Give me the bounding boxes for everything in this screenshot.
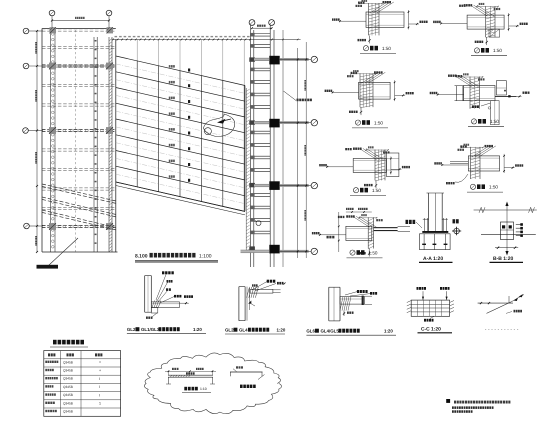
elevation bottom edge [116, 182, 245, 211]
detail 4 lower hatch stub [489, 29, 500, 37]
detail diagonal end labels [383, 1, 385, 3]
secondary beam line y47.5 [42, 45, 116, 47]
detail stiffener diagonals [370, 2, 387, 13]
detail column hatched band [368, 3, 370, 35]
GL6 leaders [345, 292, 358, 296]
detail beam rectangle [346, 226, 372, 240]
detail title circle [363, 46, 368, 51]
A-A column shaft [427, 193, 429, 231]
axis bubble 1 strip top [249, 20, 255, 26]
diagonal brace 2 dashed [42, 197, 116, 215]
detail bottom stub [368, 249, 370, 257]
detail 2 right thick bar [374, 227, 398, 228]
detail title text [478, 119, 482, 124]
svg-text:GL2: GL2 [225, 328, 234, 333]
table vertical rules [59, 351, 61, 417]
detail left dimension [333, 91, 359, 93]
callout inner circle [204, 128, 211, 135]
detail column hatched band [374, 150, 376, 181]
svg-text:1: 1 [99, 402, 101, 406]
strip right edge line [282, 30, 284, 267]
grid verticals [136, 61, 138, 187]
detail title underline [468, 126, 504, 128]
detail title text [357, 250, 361, 255]
notes black square [446, 399, 450, 403]
GL2-GL1/GL3 labels [162, 271, 164, 274]
detail top dim line [461, 76, 483, 78]
notes line 3 [452, 410, 454, 413]
GL6 lower bits [343, 311, 345, 316]
B-B lower line [481, 234, 536, 236]
strip chord left lines [250, 25, 252, 267]
svg-text:1:20: 1:20 [193, 327, 202, 332]
detail 2 top ticks [346, 211, 372, 213]
detail title circle [474, 48, 479, 53]
svg-text:1:50: 1:50 [369, 250, 378, 255]
detail top dim line [359, 217, 376, 219]
outer wall leader [284, 91, 297, 101]
A-A pedestal [420, 234, 451, 250]
detail right extension tick [509, 25, 519, 27]
left axis bubble F [23, 63, 29, 69]
table title underline [50, 346, 88, 348]
detail left dimension [441, 23, 467, 25]
GL6 end plate [362, 296, 364, 305]
callout black arrow [217, 119, 226, 124]
detail diagonal end labels [353, 148, 355, 150]
hatched column Q-C [107, 27, 114, 33]
svg-text:=: = [99, 361, 101, 365]
detail right extension tick [395, 94, 406, 96]
detail title text [362, 120, 366, 125]
band left edge line [41, 29, 43, 253]
detail title underline [350, 195, 386, 197]
detail title circle [470, 184, 475, 189]
K row beam extension left [241, 250, 255, 253]
svg-text:1:20: 1:20 [277, 328, 286, 333]
axis bubble 2 strip top [269, 20, 275, 26]
left vertical dimension line [36, 31, 38, 252]
top chord beam at axis Q [42, 28, 116, 30]
right slash label [514, 310, 516, 313]
svg-text:Q345B: Q345B [63, 401, 73, 405]
GL6 labels [357, 290, 359, 293]
right slash arrows [514, 298, 519, 302]
svg-text:GL6: GL6 [306, 329, 315, 334]
GL2-GL4 beam [250, 289, 273, 293]
detail column hatched band [359, 73, 361, 107]
table title blobs [53, 340, 57, 345]
detail right dim vline [390, 157, 392, 175]
strip dim rotated labels [304, 80, 306, 81]
svg-text:1:50: 1:50 [382, 46, 391, 51]
detail callout ellipse [204, 114, 235, 137]
detail title underline [467, 191, 503, 193]
GL2-GL4 leaders [252, 282, 267, 291]
bottom plan line [42, 251, 118, 253]
svg-text:1:20: 1:20 [384, 329, 393, 334]
detail diagonal end labels [464, 4, 466, 6]
detail 2 left dim vline [338, 212, 340, 252]
detail 9 lower leader [455, 174, 468, 182]
detail 6 right block [496, 81, 506, 95]
detail bottom stub [375, 180, 377, 188]
detail top small labels [456, 75, 458, 77]
detail 6 lower leader label [481, 103, 491, 106]
band chord A bolt circles [52, 33, 55, 36]
stem from bubble 2E [108, 16, 110, 31]
GL2-GL1/GL3 connection hatch [152, 301, 155, 308]
B-B center column section [501, 222, 514, 240]
C-C side hatch right [450, 301, 454, 303]
detail left dimension [320, 234, 346, 236]
detail title circle [471, 119, 476, 124]
detail top small labels [345, 148, 347, 150]
secondary beam line y208.5 [42, 206, 116, 208]
secondary beam line y169.5 [42, 167, 116, 169]
revision cloud outline [144, 353, 281, 414]
GL2-GL1/GL3 vertical plate [144, 276, 146, 313]
band chord A lines [50, 29, 52, 253]
detail column hatched band [470, 147, 472, 179]
svg-text:Q345B: Q345B [63, 385, 73, 389]
band chord C hatch ticks [109, 39, 112, 41]
detail diagonal end labels [374, 71, 376, 73]
strip dim line a [297, 48, 299, 258]
band chord B lines [93, 37, 95, 252]
svg-text:1:50: 1:50 [493, 48, 502, 53]
axis bubble K right [311, 248, 317, 254]
detail bottom stub [486, 37, 488, 45]
detail stiffener diagonals [470, 5, 487, 16]
detail stiffener diagonals [362, 72, 379, 83]
svg-text:I: I [99, 385, 100, 389]
detail column hatched band [367, 217, 369, 248]
detail stiffener diagonals [455, 76, 472, 87]
band chord C lines [108, 37, 110, 252]
svg-text:1:50: 1:50 [372, 188, 381, 193]
A-A right leader label [453, 219, 456, 223]
B-B center axis line with arrows [506, 203, 508, 254]
column hatch main 130.5 A [49, 127, 56, 134]
svg-text:B-B 1:20: B-B 1:20 [493, 256, 514, 262]
column hatch main 130.5 C [106, 127, 113, 134]
band middle dashed grid line [74, 30, 76, 252]
axis bubble F right [311, 182, 317, 188]
elevation top dimension line [113, 39, 301, 41]
detail stiffener diagonals [360, 149, 377, 160]
detail bottom stub [369, 35, 371, 43]
C-C top arrows [422, 291, 424, 300]
left axis bubble M [23, 128, 29, 134]
C-C bottom label [424, 319, 426, 322]
GL2-GL4 vertical plate [238, 287, 240, 321]
detail top dim line [462, 146, 484, 148]
secondary beam line y150 [42, 148, 116, 150]
C-C side hatch left [407, 301, 411, 303]
detail top dim line [366, 149, 388, 151]
detail beam rectangle [359, 82, 391, 99]
notes line 1 [454, 401, 456, 404]
svg-text:Q345B: Q345B [63, 360, 73, 364]
cloud mini detail 1 top ticks [168, 371, 170, 376]
elevation dimension tiny numbers [115, 36, 118, 37]
GL2-GL4 hatch [247, 287, 250, 298]
detail right extension tick [409, 23, 420, 25]
table header blobs [48, 353, 50, 356]
svg-text:1:50: 1:50 [374, 120, 383, 125]
B-B top line [474, 209, 537, 211]
axis bubble G right [311, 120, 317, 126]
detail title underline [347, 257, 383, 259]
detail 9 left stub plate [450, 161, 468, 163]
A-A hook bolts [423, 218, 425, 231]
main beam y130.5 [42, 128, 116, 130]
GL2-GL1/GL3 leaders [156, 275, 166, 301]
plan title underline [135, 260, 218, 262]
detail left dimension [327, 166, 353, 168]
cell mark specks column [188, 69, 190, 72]
detail diagonal end labels [485, 145, 487, 147]
axis line F [29, 65, 115, 67]
GL2-GL4 labels [267, 280, 269, 283]
cloud mini detail 2 title [240, 385, 243, 388]
dimension line 5600 between top bubbles [52, 20, 109, 22]
slant purlin lines [116, 56, 245, 86]
grid vertical connector stubs to dim line [136, 40, 138, 61]
A-A base plate [422, 231, 448, 233]
main beam y66 [42, 64, 116, 66]
strip chord right lines [269, 25, 271, 267]
GL6-GL4/GL5 vertical plate [328, 287, 330, 321]
left axis bubble Q [23, 28, 29, 34]
elevation right edge [244, 86, 246, 212]
strip black column squares [269, 56, 279, 65]
detail title circle [353, 188, 358, 193]
table outer box [44, 351, 121, 417]
main beam y226.5 [42, 224, 116, 226]
detail top small labels [351, 72, 353, 74]
detail left dimension [438, 94, 464, 96]
detail beam rectangle [353, 159, 386, 173]
svg-text:GL1/GL3: GL1/GL3 [141, 327, 160, 332]
svg-text:Q345B: Q345B [63, 369, 73, 373]
cloud mini detail 1 beam [168, 374, 213, 376]
band right edge elevation left edge [115, 40, 117, 253]
detail top small labels [460, 145, 462, 147]
strip top dim line [252, 27, 272, 29]
A-A left leader label [406, 220, 409, 224]
strip left chord hatch squares [250, 33, 255, 37]
band chord B stud marks [95, 40, 97, 42]
axis line K2 [29, 225, 43, 227]
intermediate dash-dot slants [116, 64, 245, 94]
detail top dim line [477, 6, 498, 8]
axis line M [28, 130, 43, 132]
strip dim line b [305, 42, 307, 258]
detail diagonal end labels [448, 75, 450, 77]
small callout circle on strip [256, 221, 261, 226]
GL2-GL4 black arrow [248, 301, 251, 304]
GL2-GL1/GL3 beam [151, 302, 179, 308]
column hatch main 66 C [106, 63, 113, 70]
svg-text:+: + [99, 369, 101, 373]
cloud mini detail 1 hatch [170, 375, 172, 377]
detail stiffener diagonals [472, 146, 489, 157]
left axis bubble K2 [24, 223, 30, 229]
GL6 beam [340, 297, 364, 305]
svg-text:Q345B: Q345B [63, 393, 73, 397]
detail right dim vline [408, 10, 410, 29]
detail bottom stub [360, 107, 362, 115]
cloud mini detail 1 mid label [186, 372, 188, 374]
detail title underline [352, 127, 388, 129]
C-C top labels [417, 287, 419, 290]
detail column hatched band [485, 6, 487, 37]
hatched column Q-A [50, 27, 57, 33]
strip beam stubs to bubbles [254, 58, 269, 61]
detail title text [360, 188, 364, 193]
detail title underline [360, 53, 396, 55]
C-C box [411, 300, 449, 316]
cell labels small column [169, 65, 171, 68]
left dimension rotated labels [35, 42, 37, 43]
detail top dim line [351, 73, 376, 75]
svg-text:1:10: 1:10 [200, 387, 207, 391]
detail right extension tick [504, 167, 514, 169]
GL2-GL1/GL3 lower bits [151, 308, 158, 314]
secondary beam line y189 [42, 187, 116, 189]
detail column hatched band [469, 77, 471, 109]
column hatch main 66 A [49, 63, 56, 70]
table horizontal rules [44, 358, 121, 360]
svg-text:GL4: GL4 [239, 328, 248, 333]
svg-text:Q345B: Q345B [63, 410, 73, 414]
svg-text:I: I [99, 393, 100, 397]
A-A right cross symbol [454, 228, 460, 234]
column hatch main 226.5 A [49, 223, 56, 230]
detail left dimension [340, 20, 366, 22]
detail top dim line [360, 3, 383, 5]
right slash dotted line below [485, 329, 519, 331]
detail stiffener diagonals [353, 216, 370, 227]
detail title circle [350, 250, 355, 255]
svg-text:GL4/GL5: GL4/GL5 [321, 329, 340, 334]
detail beam rectangle [468, 156, 499, 171]
detail title text [481, 48, 485, 53]
detail title underline [471, 55, 507, 57]
right slash verticals [508, 296, 510, 303]
diagonal brace 1 dashed [42, 184, 116, 201]
table row contents [45, 361, 47, 363]
cloud mini detail 1 title [184, 387, 187, 391]
detail beam rectangle [467, 15, 504, 29]
svg-text:1:50: 1:50 [489, 185, 498, 190]
leader line to plan note [49, 238, 79, 266]
A-A anchor bolts in pedestal [423, 234, 425, 250]
right slash detail baseline [478, 302, 513, 304]
svg-text:1:100: 1:100 [199, 254, 212, 260]
cloud mini detail 1 end drops [168, 377, 170, 384]
detail title text [477, 184, 481, 189]
svg-text:GL2: GL2 [127, 327, 136, 332]
detail right dim vline [503, 154, 505, 173]
C-C bolt verticals [417, 300, 419, 316]
detail title text [370, 46, 374, 51]
svg-text:I: I [99, 377, 100, 381]
cloud mini detail 2 bracket [230, 371, 263, 373]
svg-text:Q345B: Q345B [63, 377, 73, 381]
detail beam rectangle [366, 12, 404, 27]
detail left dimension [442, 164, 468, 166]
svg-text:C-C 1:20: C-C 1:20 [421, 327, 441, 333]
detail top small labels [459, 5, 461, 7]
GL6 hatch [340, 297, 343, 311]
diagonal brace 3 dashed [42, 210, 116, 228]
axis line Q [29, 30, 43, 32]
svg-text:A-A 1:20: A-A 1:20 [423, 256, 443, 262]
axis bubble H right [311, 56, 317, 62]
secondary beam line y85.5 [42, 83, 116, 85]
detail 6 left member [455, 86, 457, 101]
axis bubble 2D top-left [49, 10, 55, 16]
detail top small labels [358, 2, 360, 4]
plan note label blob [37, 265, 59, 269]
notes line 2 [452, 406, 454, 409]
B-B bottom line with slashes [495, 247, 518, 249]
B-B right comb detail [516, 224, 522, 226]
detail diagonal end labels [346, 215, 348, 217]
right slash diagonal [487, 302, 512, 314]
detail right extension tick [391, 168, 402, 170]
detail 6 right thick line [495, 95, 516, 97]
svg-text:8.100: 8.100 [135, 254, 148, 260]
detail 6 lower band [491, 101, 500, 125]
strip rungs [254, 33, 270, 35]
secondary beam line y105 [42, 103, 116, 105]
axis bubble 2E top [106, 10, 112, 16]
elevation right edge hatch band [245, 88, 247, 252]
detail title circle [355, 120, 360, 125]
column hatch main 226.5 C [106, 223, 113, 230]
detail right dim vline [508, 13, 510, 31]
detail beam rectangle [464, 86, 495, 101]
detail 8 right block [386, 153, 399, 177]
detail top small labels [338, 216, 340, 218]
detail right dim vline [394, 80, 396, 101]
stem from bubble 2D [51, 16, 53, 31]
